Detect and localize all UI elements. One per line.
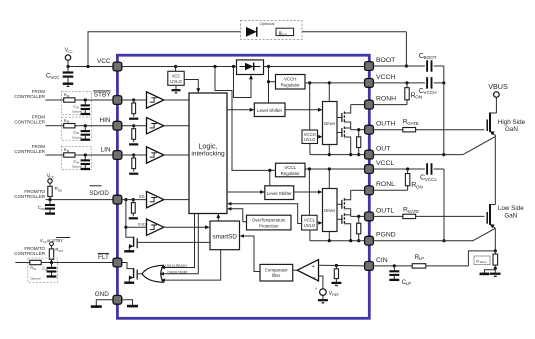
svg-text:HIN: HIN [99,117,110,124]
svg-text:SD: SD [139,194,145,199]
text FROM CONTROLLER (HIN) [14,115,46,125]
svg-text:DD: DD [58,188,62,192]
wire switch node down to low-side drain [490,137,495,205]
svg-text:Logic,: Logic, [198,142,217,151]
svg-text:VCCH: VCCH [284,77,296,82]
schmitt buffer (HIN) [122,118,189,134]
resistor R_shunt with label box [474,251,498,268]
svg-text:VCC: VCC [172,74,181,79]
block Level Shifter (high side) [254,103,285,117]
capacitor C_VCCL [420,163,437,182]
transistor high-side pull-down FET (to OUTH) [337,127,351,155]
pin RONH (right) [365,96,397,110]
wire VCC to logic supply branch [213,65,275,170]
wire high Driver to OUT rail [328,145,330,155]
pin CIN (right) [365,257,388,271]
svg-text:VCCL: VCCL [304,218,316,223]
block OverTemperature Protection [247,215,292,230]
wire RONL internal [351,189,366,191]
svg-text:RONL: RONL [376,181,395,188]
wire R_LP to shunt top node [468,251,495,266]
wire VCCH UVLO to OUT rail [309,144,311,155]
svg-text:Optional: Optional [31,277,41,281]
resistor CIN internal pull-down with ground [331,266,341,286]
wire OUTH internal [351,129,366,131]
wire low Level Shifter to low Driver (arrow) [294,190,323,194]
IC boundary (driver IC outline) [117,55,369,318]
svg-text:DD: DD [41,207,45,211]
dashed optional box (STBY input RC) [61,91,91,114]
wire CIN internal to comparator plus input [319,264,366,267]
svg-text:PGND: PGND [376,232,396,239]
wire optional network to BOOT line [405,32,408,68]
resistor R_ON (low) [405,169,422,190]
wire RONH external [373,104,407,106]
capacitor C_DD with ground [38,200,55,214]
wire low-side source to PGND (diagonal) [473,228,495,240]
transistor high-side pull-up FET (to RONH) [337,105,351,130]
svg-text:CONTROLLER: CONTROLLER [14,120,46,125]
wire VCCH external [373,81,425,84]
svg-text:OverTemperature: OverTemperature [252,217,286,222]
wire OverTemperature Protection to Logic (arrow) [227,207,246,222]
wire OUT external to switch node [373,154,463,156]
pin RONL (right) [365,181,396,195]
resistor R_IN (HIN) [61,119,77,128]
svg-text:OUT: OUT [376,146,390,153]
pin HIN (left) [99,117,121,130]
wire VCCL rail (regulator to pin) [305,167,365,170]
wire to HIN pin with node [77,124,113,127]
resistor R_ON (high) [405,83,422,105]
svg-text:Level Shifter: Level Shifter [267,191,293,196]
resistor R_BOOT (optional) [276,28,294,36]
optional external bootstrap network box [241,21,303,40]
text High Side GaN [498,119,526,133]
node UVLO-READY input to OR gate [161,214,195,270]
svg-text:UVLO: UVLO [170,79,182,84]
transistor Low Side GaN Q-LS [487,204,495,228]
resistor R_IN (LIN) [61,148,77,157]
svg-text:OUTL: OUTL [376,207,394,214]
text FROM/TO CONTROLLER (FLT) [14,246,46,256]
resistor R_DD (SD/OD pull-up) [48,183,62,199]
block VCCL Regulator [276,163,306,177]
svg-text:IN: IN [76,131,79,135]
wire sync-bootstrap control [232,65,253,98]
wire VCC UVLO to Logic (arrow down) [184,80,200,93]
capacitor C_IN (HIN, optional) with ground [72,126,90,140]
svg-text:VCCH: VCCH [304,132,316,137]
svg-text:GND: GND [95,291,110,298]
capacitor C_LP with ground [389,266,411,286]
wire SSD buffer output to smartSD [164,225,210,229]
block Driver (high side) U-DRV1 [323,102,338,145]
svg-text:GaN: GaN [505,126,518,133]
wire Logic to high Level Shifter (arrow) [227,108,254,112]
wire low-side source to shunt [494,228,497,252]
pin GND (left) [95,291,122,304]
svg-text:FLT: FLT [98,254,109,261]
input network for STBY: wire from controller [46,99,62,101]
pin BOOT (right) [365,57,396,71]
ground at GND pin (external) [91,300,113,307]
svg-text:VCC: VCC [50,75,59,80]
svg-text:SSD: SSD [138,222,146,227]
svg-text:VCCH: VCCH [376,74,395,81]
svg-text:VCCL: VCCL [425,177,438,182]
supply Vcc or STBY (FLT pull-up) [40,238,71,246]
svg-text:IN: IN [76,161,79,165]
svg-text:CIN: CIN [376,257,388,264]
transistor low-side pull-down FET (to OUTL) [337,213,351,240]
svg-text:Level Shifter: Level Shifter [257,108,283,113]
svg-text:interlocking: interlocking [191,151,225,158]
wire VCC branch to low level shifter [268,169,271,186]
svg-text:GATE: GATE [408,209,420,214]
svg-text:SD/OD: SD/OD [89,190,109,197]
block Logic interlocking U-LOGIC [189,93,227,214]
ground below R_shunt [490,267,501,277]
svg-text:GaN: GaN [504,212,517,219]
pin LIN (left) [101,146,122,159]
svg-text:VCCH: VCCH [424,90,437,95]
svg-text:shunt: shunt [480,260,487,264]
capacitor C_IN (FLT) with ground [31,263,57,281]
svg-text:filter: filter [272,273,281,278]
pin VCCL (right) [365,160,395,174]
svg-text:Driver: Driver [324,121,336,126]
svg-text:+: + [315,286,318,291]
resistor R_LP [412,254,468,268]
pin VCC (left) [97,58,122,71]
svg-text:Regulator: Regulator [281,171,301,176]
wire high-side source to OUT (diagonal) [463,137,495,155]
svg-text:VBUS: VBUS [488,82,508,91]
pin PGND (right) [365,232,396,246]
source V_REF at comparator minus input [315,276,339,303]
svg-text:CONTROLLER: CONTROLLER [14,194,46,199]
wire OUTL internal [351,215,366,217]
wire PGND external [373,240,473,242]
wire high Level Shifter to high Driver (arrow) [285,108,323,112]
wire to LIN pin with node [77,153,113,156]
svg-text:Protection: Protection [259,223,279,228]
internal pull-down resistor at STBY [129,98,138,118]
wire BOOT internal rail [264,66,366,68]
svg-text:High Side: High Side [498,119,526,126]
pin VCCH (right) [365,74,396,88]
ground at GND pin (internal) [122,300,138,306]
block Driver (low side) U-DRV2 [323,189,338,232]
block Comparator filter [260,264,293,281]
svg-text:CONTROLLER: CONTROLLER [14,149,46,154]
wire FLT line to pin [41,261,113,264]
wire BOOT rail to VCCH regulator and level shifter [267,65,276,103]
svg-text:Comparator: Comparator [265,267,289,272]
svg-text:IN: IN [33,267,36,271]
svg-text:CONTROLLER: CONTROLLER [14,251,46,256]
svg-text:BOOT: BOOT [279,32,287,36]
wire Logic to low Level Shifter (arrow) [227,190,265,194]
supply VBUS [488,82,508,99]
supply Vcc (top left) [64,48,73,67]
pin CIN external wire [373,264,412,267]
wire VCCH rail to high Driver [328,83,330,102]
svg-text:ON: ON [415,95,422,100]
resistor R_IN (FLT) [15,260,41,271]
wire smartSD output to OR gate third input [161,250,221,282]
block Level Shifter (low side) [265,186,294,200]
wire VCCH UVLO to high Driver (arrow) [318,135,323,139]
svg-text:VCCL: VCCL [376,160,394,167]
transistor low-side pull-up FET (to RONL) [337,190,351,216]
schmitt buffer (STBY) [122,92,189,108]
transistor pull-down FET at SD/OD (smartSD driven) [124,227,137,251]
svg-text:Driver: Driver [324,208,336,213]
schmitt buffer (LIN) [122,147,189,163]
svg-text:−: − [313,275,316,281]
supply Vcc pull-up (SD/OD) [47,173,55,185]
wire VCC line (top internal rail) [122,66,236,68]
text FROM CONTROLLER (STBY) [14,89,46,99]
svg-text:VCCL: VCCL [284,165,296,170]
block VCC UVLO [168,65,184,85]
input network for LIN: wire from controller [46,154,62,156]
wire Vcc to optional bootstrap branch [88,32,241,67]
resistor R_IN (STBY) [61,93,77,102]
resistor R_GATE (low) [373,207,484,219]
ground (second, chassis) at shunt [480,270,496,274]
internal pull-down resistor at LIN [129,153,138,173]
svg-text:or STBY: or STBY [47,238,63,243]
wire Vcc node to VCC pin [66,65,112,68]
pin OUTH (right) [365,121,396,135]
svg-text:Optional: Optional [260,21,275,26]
capacitor C_VCCH [419,77,437,95]
pin FLT (left) [98,253,122,267]
svg-text:OUTH: OUTH [376,121,395,128]
op-amp comparator U-CMP (points left) [293,260,319,281]
transistor pull-down FET at FLT [122,263,137,283]
internal pull-down resistor at SD/OD [129,198,138,218]
svg-text:BOOT: BOOT [376,57,395,64]
svg-text:VCC: VCC [97,58,111,65]
wire C_BOOT to switch node [434,65,444,67]
wire low Driver to PGND rail [328,232,330,241]
svg-text:UVLO: UVLO [304,223,316,228]
wire smartSD to Logic (arrow up) [216,214,220,222]
wire VCCL external [373,167,425,170]
text Low Side GaN [498,205,524,219]
svg-text:LP: LP [406,281,411,286]
schmitt buffer SD [122,191,189,207]
wire to STBY pin with node [77,98,113,101]
block VCCH UVLO [302,83,318,144]
wire VCCL UVLO to PGND rail [309,230,311,241]
svg-text:RONH: RONH [376,96,396,103]
wire PGND rail internal [310,239,365,242]
svg-text:+: + [312,264,315,270]
svg-text:GATE: GATE [407,121,419,126]
wire C_VCCL to PGND vertical [434,169,446,242]
wire VCCH rail (regulator to pin) [305,81,365,84]
OR gate driving FLT FET (inputs on right) [137,265,163,282]
wire VCCL UVLO to low Driver (arrow) [317,221,322,225]
resistor internal gate pull-down (high) [357,128,361,156]
resistor R_GATE (high) [373,119,484,132]
pin STBY (left) [93,91,122,105]
resistor R_FLT (pull-up) [49,246,63,263]
dashed optional box (HIN input RC) [61,117,91,140]
svg-text:LIN: LIN [101,146,111,153]
pin OUTL (right) [365,207,395,221]
wire VCCL rail to low Driver [328,169,330,189]
text FROM/TO CONTROLLER (SD/OD) [14,189,46,199]
svg-text:CONTROLLER: CONTROLLER [14,94,46,99]
wire RONL external [373,189,407,191]
resistor internal gate pull-down (low) [357,215,361,243]
diode internal bootstrap (in box) [237,60,264,75]
block smartSD [210,221,240,250]
svg-text:ON: ON [416,184,423,189]
svg-text:BOOT: BOOT [424,55,437,60]
ground below VCC UVLO [172,85,181,93]
wire VCCL UVLO status to Logic (arrow) [227,202,301,223]
svg-text:smartSD: smartSD [212,233,237,240]
wire SD/OD line from controller to pin [46,198,113,201]
block VCCH Regulator [276,75,306,90]
svg-text:STBY: STBY [94,91,111,98]
dashed optional box (FLT RC) [28,258,58,282]
wire smartSD to SD/OD FET gate [137,241,210,243]
dashed optional box (LIN input RC) [61,146,91,169]
svg-text:FLT: FLT [59,249,64,253]
svg-text:IN: IN [76,106,79,110]
svg-text:REF: REF [332,293,339,297]
svg-text:UVLO: UVLO [304,137,316,142]
svg-text:LP: LP [419,256,424,261]
capacitor C_IN (LIN, optional) with ground [72,155,90,169]
pin OUT (right) [365,146,391,160]
internal pull-down resistor at HIN [129,124,138,144]
wire OUT rail internal [310,153,365,156]
svg-text:Low Side: Low Side [498,205,524,212]
svg-text:CC: CC [67,50,73,54]
capacitor C_BOOT [419,53,437,72]
capacitor C_IN (STBY, optional) with ground [72,100,90,114]
wire C_VCCH to switch node vertical [434,66,446,156]
wire Comparator filter to smartSD (arrow) [240,234,260,271]
diode (external bootstrap, optional) [246,27,406,37]
capacitor C_VCC [46,67,73,87]
svg-text:Regulator: Regulator [281,83,301,88]
text FROM CONTROLLER (LIN) [14,144,46,154]
wire BOOT external [373,65,425,67]
transistor High Side GaN Q-HS [487,97,496,136]
schmitt buffer SSD [124,200,164,236]
wire RONH internal [351,104,366,106]
node OVER-TEMP input to OR gate [160,214,199,276]
svg-text:R: R [476,258,479,263]
pin SD/OD (left) [89,186,122,204]
input network for HIN: wire from controller [46,125,62,127]
block VCCL UVLO [302,169,318,230]
